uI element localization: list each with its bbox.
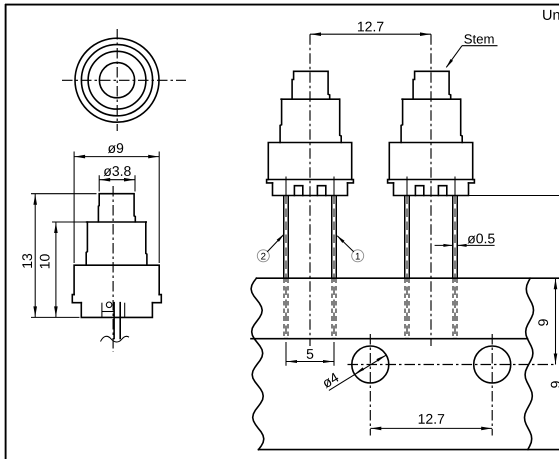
dimension o0.5 leader lines: [435, 244, 495, 246]
dimension 5 arrows: [287, 360, 298, 363]
top view circle 3 (bezel): [88, 51, 146, 109]
button B right pin center dashed line: [454, 196, 456, 339]
side view vertical centerline: [112, 186, 114, 352]
side view stem outline: [98, 194, 135, 222]
button A left pin hidden edges in panel: [284, 278, 288, 338]
balloon callout 1 leader: [337, 236, 354, 252]
dimension 12.7 top line: [310, 33, 431, 35]
balloon callout 1 text: [356, 253, 360, 260]
balloon callout 2 circle: [257, 250, 269, 262]
button A left pin solid edges: [284, 196, 288, 279]
hole H2 vertical centerline: [491, 334, 493, 436]
dimension 10 line: [55, 222, 57, 317]
dimension 12.7 top text: [358, 22, 383, 32]
dimension 9 partial text at edge: [551, 381, 559, 387]
dimension 13 line: [34, 194, 36, 318]
button A right pin root line: [333, 177, 335, 196]
side view flange lip: [72, 295, 161, 303]
dimension o4 leader line: [329, 355, 386, 390]
dimension 13 extension lines: [31, 194, 97, 318]
button A base notch right: [317, 186, 325, 196]
button B flange lip: [388, 180, 475, 183]
dimension o9 line: [74, 156, 159, 158]
button B right pin tip: [453, 337, 457, 339]
side view terminal pin: [114, 303, 120, 339]
note Unit:mm (clipped at right edge): [543, 9, 559, 20]
button B left pin solid edges: [405, 196, 409, 279]
hole H1 circle o4: [352, 346, 389, 383]
button A right pin solid edges: [332, 196, 336, 279]
button B upper body sides: [401, 99, 462, 142]
side view upper body sides: [86, 222, 147, 265]
dimension 9 text: [538, 319, 548, 325]
dimension 12.7 bottom line: [370, 427, 492, 429]
button B vertical centerline: [430, 34, 432, 346]
button B left pin center dashed line: [406, 196, 408, 339]
dimension 13 arrows: [33, 194, 37, 205]
dimension 12.7 bottom text: [419, 414, 444, 424]
button B main body: [389, 143, 472, 180]
dimension 12.7 bottom arrows: [371, 427, 382, 431]
button B left pin root line: [406, 177, 408, 196]
top view inner circle (stem o3.8): [99, 63, 134, 98]
dimension o0.5 arrows: [443, 244, 453, 247]
side view main body: [74, 265, 159, 294]
dimension o4 arrows: [355, 367, 365, 374]
button A base notch left: [294, 186, 302, 196]
dimension o3.8 line: [99, 179, 135, 181]
hole H2 circle o4: [474, 346, 511, 383]
dimension o4 text: [321, 372, 339, 389]
button B right pin root line: [454, 177, 456, 196]
button B stem outline: [413, 71, 451, 99]
dimension 5 extension lines: [286, 342, 334, 366]
button B right pin hidden edges in panel: [453, 278, 457, 338]
top view vertical centerline: [116, 29, 118, 131]
dimension 10 text: [40, 254, 50, 268]
button A left pin center dashed line: [285, 196, 287, 339]
balloon callout 2 leader: [267, 235, 283, 252]
button B base notch left: [415, 186, 423, 196]
dimension o9 extension lines: [74, 152, 159, 264]
button B shoulder line: [402, 98, 460, 100]
button A upper body sides: [280, 99, 341, 142]
dimension 10 extension line: [52, 221, 86, 223]
dimension o9 arrows: [75, 155, 86, 159]
button B base strip: [394, 183, 469, 196]
dimension 9 line: [555, 278, 557, 364]
label Stem leader arrow: [446, 59, 453, 68]
button B right pin solid edges: [453, 196, 457, 279]
side view pin break squiggle: [101, 336, 130, 342]
button A vertical centerline: [309, 34, 311, 346]
frame border top: [5, 4, 559, 6]
button A left pin tip: [284, 337, 288, 339]
balloon callout 2 arrow: [277, 234, 285, 242]
side view base inner edge left: [101, 303, 103, 318]
button A right pin center dashed line: [333, 196, 335, 339]
dimension o3.8 text: [104, 166, 131, 176]
frame border left: [5, 4, 7, 459]
dimension 12.7 top arrows: [311, 32, 322, 36]
dimension o3.8 extension lines: [99, 175, 135, 191]
dimension 13 text: [22, 254, 32, 268]
dimension o0.5 text: [468, 234, 495, 244]
button B left pin tip: [405, 337, 409, 339]
dimension 10 arrows: [54, 223, 58, 234]
dimension o3.8 arrows: [100, 178, 111, 182]
dimension o9 text: [108, 143, 123, 153]
button A left pin root line: [285, 177, 287, 196]
button A shoulder line: [281, 98, 339, 100]
button A flange lip: [267, 180, 354, 183]
button A stem outline: [292, 71, 330, 99]
side view base inner step: [102, 311, 114, 313]
balloon callout 2 text: [261, 253, 265, 260]
button A main body: [268, 143, 351, 180]
dimension 5 line: [286, 361, 334, 363]
top view horizontal centerline: [62, 79, 186, 81]
balloon callout 1 circle: [352, 250, 364, 262]
panel left break line: [251, 278, 264, 449]
side view detent ball circle: [106, 302, 112, 308]
panel top edge: [257, 277, 559, 279]
panel seat extension line right: [469, 195, 559, 197]
button A base strip: [273, 183, 348, 196]
hole H1 vertical centerline: [369, 334, 371, 436]
label Stem leader line: [446, 46, 462, 67]
button A right pin hidden edges in panel: [332, 278, 336, 338]
balloon callout 1 arrow: [337, 235, 345, 243]
top view outer circle (flange o9): [75, 38, 159, 122]
top view circle 2 (body): [81, 45, 152, 116]
panel bottom edge: [259, 449, 559, 451]
label Stem text: [464, 34, 493, 43]
label Stem underline: [462, 45, 498, 47]
panel right break line: [525, 278, 534, 449]
button B left pin hidden edges in panel: [405, 278, 409, 338]
button B base notch right: [438, 186, 446, 196]
dimension 5 text: [307, 349, 314, 359]
holes horizontal centerline: [348, 364, 556, 366]
panel underside edge: [251, 338, 528, 340]
dimension 9 arrows: [554, 279, 558, 290]
side view shoulder line: [86, 221, 146, 223]
side view base inner edge right: [124, 303, 126, 318]
side view base flange: [81, 303, 152, 318]
button A right pin tip: [332, 337, 336, 339]
